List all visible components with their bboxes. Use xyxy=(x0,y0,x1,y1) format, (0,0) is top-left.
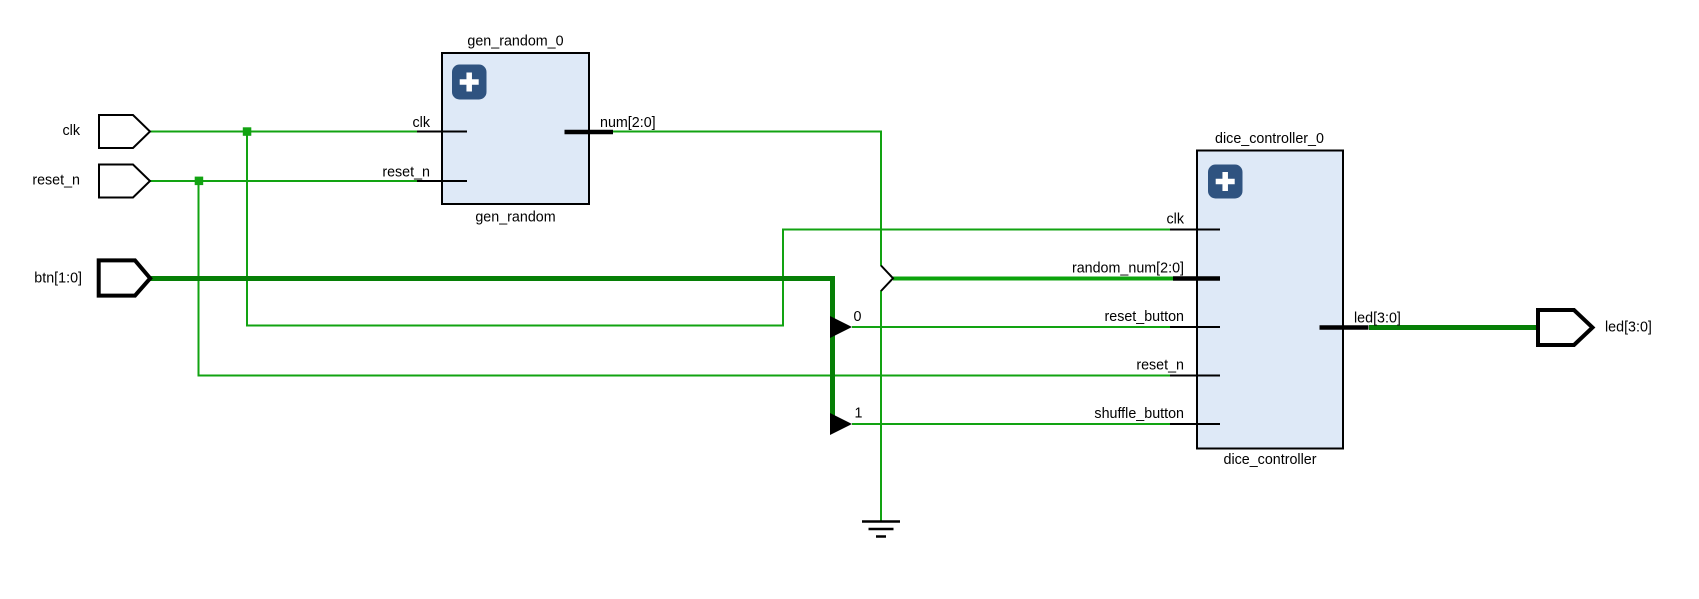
svg-text:btn[1:0]: btn[1:0] xyxy=(34,271,82,287)
svg-text:gen_random_0: gen_random_0 xyxy=(467,34,563,50)
svg-text:clk: clk xyxy=(63,123,81,139)
svg-text:reset_n: reset_n xyxy=(32,173,80,189)
svg-text:reset_n: reset_n xyxy=(1136,358,1184,374)
svg-text:reset_n: reset_n xyxy=(382,165,430,181)
svg-text:reset_button: reset_button xyxy=(1105,309,1185,325)
svg-text:gen_random: gen_random xyxy=(475,210,555,226)
svg-text:clk: clk xyxy=(1167,212,1185,228)
svg-text:random_num[2:0]: random_num[2:0] xyxy=(1072,260,1184,276)
svg-text:0: 0 xyxy=(854,309,862,325)
svg-text:clk: clk xyxy=(413,115,431,131)
svg-text:dice_controller_0: dice_controller_0 xyxy=(1215,131,1324,147)
svg-text:led[3:0]: led[3:0] xyxy=(1354,311,1401,327)
svg-text:led[3:0]: led[3:0] xyxy=(1605,320,1652,336)
svg-text:1: 1 xyxy=(855,406,863,422)
svg-text:dice_controller: dice_controller xyxy=(1224,452,1317,468)
svg-text:shuffle_button: shuffle_button xyxy=(1094,406,1184,422)
svg-text:num[2:0]: num[2:0] xyxy=(600,115,656,131)
